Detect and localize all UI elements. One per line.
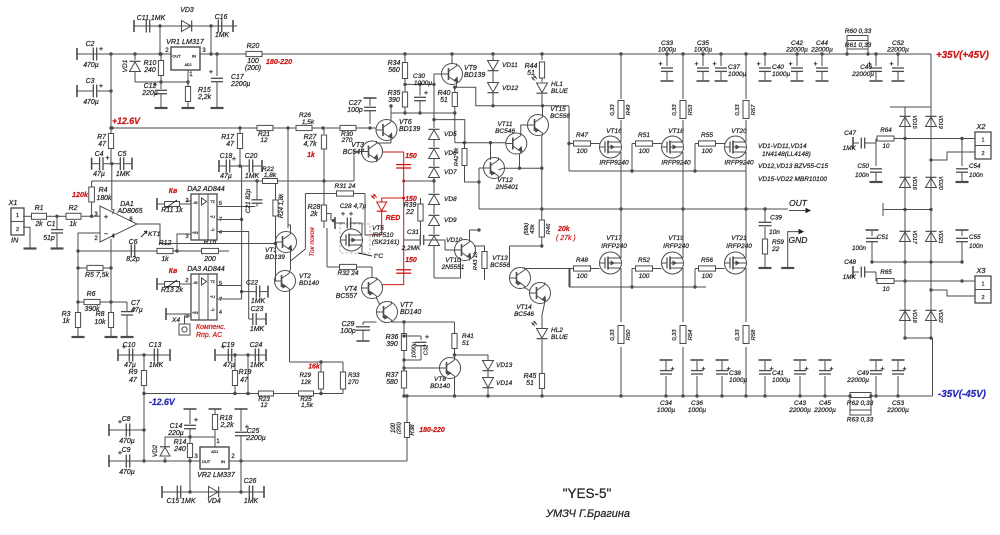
wire VD12 to gate drop [568, 106, 570, 144]
wire VT11 emitter [519, 154, 521, 168]
svg-text:+: + [232, 154, 236, 163]
svg-text:2N5401: 2N5401 [495, 184, 519, 191]
svg-text:+: + [425, 332, 429, 341]
svg-text:1,8k: 1,8k [264, 172, 277, 179]
svg-text:R55: R55 [701, 132, 713, 139]
label OUT [789, 198, 810, 213]
resistor R22 [262, 166, 277, 184]
svg-text:1N4148(LL4148): 1N4148(LL4148) [762, 151, 811, 158]
capacitor C19b [215, 342, 250, 369]
resistor R25 [299, 391, 314, 409]
wire VD10 bottom [434, 245, 461, 278]
op-amp DA2 AD844 [187, 185, 225, 240]
svg-text:+: + [694, 59, 698, 68]
svg-text:C15 1MK: C15 1MK [167, 498, 196, 505]
wire VT14 emitter [542, 304, 545, 316]
resistor R48 [570, 257, 600, 287]
svg-text:7: 7 [219, 297, 222, 303]
svg-text:X4: X4 [171, 317, 180, 324]
resistor R3 [62, 302, 81, 337]
svg-text:Rпр. AC: Rпр. AC [196, 332, 223, 339]
svg-text:BLUE: BLUE [551, 88, 569, 95]
resistor R57 0.33 [735, 101, 757, 119]
svg-text:R24 1,8k: R24 1,8k [279, 193, 285, 218]
wire VD2-R18 line [165, 435, 215, 438]
resistor R55 [693, 132, 724, 173]
svg-text:1k: 1k [307, 152, 316, 159]
svg-text:51: 51 [440, 97, 448, 104]
svg-text:+: + [712, 59, 716, 68]
capacitor C43 [788, 360, 811, 414]
diode VD1 [122, 52, 141, 82]
svg-text:VT2: VT2 [299, 273, 311, 280]
svg-text:0,33: 0,33 [610, 104, 616, 116]
transistor VT4 BC557 [336, 278, 383, 301]
svg-text:VD4: VD4 [207, 498, 221, 505]
svg-text:TZ: TZ [210, 280, 215, 284]
capacitor C44 [810, 40, 833, 81]
svg-text:240: 240 [143, 67, 156, 74]
wire VD tap [432, 118, 465, 143]
transistor VT8 BD140 [430, 358, 460, 391]
svg-text:KT1: KT1 [148, 231, 161, 238]
svg-text:100: 100 [702, 273, 713, 280]
svg-text:Кв: Кв [169, 268, 178, 275]
svg-text:−: − [104, 229, 108, 238]
svg-text:VD13: VD13 [496, 362, 513, 369]
wire VD13 top [455, 354, 489, 356]
svg-text:IRFP9240: IRFP9240 [724, 160, 754, 167]
op-amp DA1 AD8065 [94, 201, 142, 242]
svg-text:R35: R35 [388, 90, 401, 97]
mosfet VT18 IRFP9240 [661, 128, 691, 167]
wire DA1 pin4 [110, 239, 112, 268]
ground C7 [121, 336, 134, 338]
svg-text:100n: 100n [852, 245, 866, 252]
wire bottom cap line C15-VD4-C26 [162, 491, 264, 493]
transistor VT15 BC556 [528, 106, 571, 136]
svg-text:C32: C32 [424, 344, 430, 355]
svg-text:1: 1 [189, 71, 193, 78]
wire VT10 collector [470, 228, 481, 239]
svg-text:C37: C37 [728, 64, 740, 71]
transistor VT11 BC546 [495, 121, 527, 154]
capacitor C27 [347, 98, 376, 130]
resistor R47 [567, 132, 599, 155]
wire +35V rail drop to rectifier [930, 54, 932, 107]
svg-text:150: 150 [405, 257, 417, 264]
svg-text:100: 100 [577, 148, 588, 155]
capacitor C1 [43, 216, 63, 248]
svg-text:C48: C48 [844, 259, 856, 266]
svg-text:X2: X2 [975, 122, 985, 131]
svg-text:IN: IN [192, 54, 196, 59]
svg-text:VD15: VD15 [911, 115, 917, 128]
regulator VR2 LM337 [197, 447, 236, 479]
svg-text:22000µ: 22000µ [785, 47, 808, 54]
svg-text:C3: C3 [86, 78, 95, 85]
svg-text:1,5k: 1,5k [301, 402, 314, 409]
svg-text:2: 2 [165, 47, 169, 54]
svg-text:R34: R34 [388, 60, 401, 67]
svg-text:470µ: 470µ [83, 62, 99, 69]
svg-text:R12: R12 [159, 240, 172, 247]
label 180-220 top [266, 58, 292, 66]
trimmer R13 [157, 278, 191, 294]
diode VD3b bottom none [0, 0, 1, 1]
svg-text:Компенс.: Компенс. [196, 324, 226, 331]
ground C17 [211, 107, 224, 109]
transistor VT1 BD139 [265, 232, 297, 262]
wire VT12 emitter [499, 167, 544, 171]
resistor R23 [258, 391, 273, 409]
svg-text:1: 1 [16, 213, 19, 219]
connector X2 [975, 122, 991, 159]
wire VT8 collector [453, 379, 456, 398]
svg-text:BD140: BD140 [299, 280, 319, 287]
wire bottom gate bus [569, 269, 706, 288]
svg-text:1MK: 1MK [251, 298, 266, 305]
svg-text:47: 47 [98, 141, 107, 148]
resistor R44 [525, 52, 545, 82]
resistor R17 [221, 126, 242, 167]
wire y113 line [391, 111, 456, 114]
wire VT1/VT2 bases [274, 242, 277, 281]
svg-text:47: 47 [226, 141, 235, 148]
svg-text:C36: C36 [691, 400, 703, 407]
resistor R35 [388, 84, 408, 114]
wire feedback down [0, 0, 1, 1]
svg-text:+IN: +IN [192, 311, 198, 315]
svg-text:VT15: VT15 [550, 106, 566, 113]
capacitor C17 [209, 52, 251, 108]
svg-text:22000µ: 22000µ [846, 377, 869, 384]
capacitor C29 [340, 321, 376, 341]
svg-text:+: + [804, 364, 808, 373]
svg-text:C4: C4 [95, 151, 104, 158]
svg-text:R3: R3 [62, 311, 71, 318]
subtitle [545, 508, 630, 520]
svg-text:0,33: 0,33 [735, 329, 741, 341]
label Tok pokoya [309, 227, 316, 257]
svg-text:C25: C25 [247, 428, 260, 435]
svg-text:R44: R44 [525, 63, 538, 70]
resistor R37 [386, 371, 407, 396]
mosfet VT19 IRFP240 [662, 235, 690, 276]
diode VD6 [429, 139, 458, 159]
capacitor C8 [109, 416, 146, 445]
svg-text:-U: -U [210, 308, 214, 312]
svg-text:C11 1MK: C11 1MK [137, 15, 166, 22]
svg-text:C14: C14 [170, 423, 183, 430]
mosfet VT17 IRFP240 [600, 235, 628, 276]
svg-text:( 27k ): ( 27k ) [556, 235, 576, 242]
svg-text:+: + [99, 44, 103, 53]
svg-text:R63 0,33: R63 0,33 [847, 417, 874, 424]
resistor R29 [300, 362, 324, 395]
wire DA2 pin2 [186, 200, 191, 202]
resistor R33 [340, 362, 360, 394]
svg-text:47µ: 47µ [124, 362, 136, 369]
pin 2 VR1 [165, 47, 169, 54]
svg-text:R15: R15 [198, 87, 211, 94]
svg-text:1k: 1k [161, 256, 169, 263]
svg-text:1000µ: 1000µ [657, 407, 675, 414]
transistor VT2 BD140 [275, 271, 320, 292]
svg-text:VT11: VT11 [497, 121, 512, 128]
svg-text:+: + [105, 153, 109, 162]
svg-text:t°C: t°C [374, 252, 383, 260]
svg-text:VT14: VT14 [516, 304, 532, 311]
wire LM337 output line [232, 438, 407, 461]
svg-text:1000µ: 1000µ [772, 71, 790, 78]
wire VT6 collector up [390, 113, 392, 120]
diode VD21 [926, 230, 944, 243]
svg-text:47µ: 47µ [131, 307, 143, 314]
wire VT17 column [619, 209, 622, 398]
mosfet VT20 IRFP9240 [724, 128, 754, 167]
node C2 [109, 52, 112, 55]
svg-text:8,2p: 8,2p [126, 256, 140, 263]
terminal C11 left [133, 20, 135, 32]
svg-text:C51: C51 [877, 234, 889, 241]
capacitor C15 [162, 486, 196, 506]
svg-text:C1: C1 [47, 221, 56, 228]
svg-text:VD1-VD11,VD14: VD1-VD11,VD14 [758, 143, 807, 150]
svg-text:220µ: 220µ [167, 430, 184, 437]
svg-text:22000µ: 22000µ [886, 47, 909, 54]
svg-text:IRF510: IRF510 [372, 232, 394, 239]
svg-text:VD12: VD12 [502, 85, 519, 92]
svg-text:VT10: VT10 [445, 257, 461, 264]
wire left diode column [904, 107, 906, 338]
wire DA2 +IN [177, 234, 191, 251]
svg-text:R37: R37 [386, 372, 400, 379]
ground X1 [24, 247, 37, 249]
svg-text:VD1: VD1 [122, 59, 129, 72]
svg-text:VD5: VD5 [444, 131, 457, 138]
svg-text:VT7: VT7 [400, 302, 414, 309]
node +12.6V start [110, 126, 113, 129]
resistor R30 [340, 125, 356, 144]
label Kv DA3 [169, 268, 178, 275]
svg-text:C13: C13 [149, 342, 162, 349]
svg-text:2,2MK: 2,2MK [401, 245, 421, 252]
wire rail2 mid drop [287, 128, 289, 228]
svg-text:C23: C23 [251, 306, 264, 313]
svg-text:C29: C29 [342, 321, 355, 328]
capacitor C21 [245, 179, 263, 213]
svg-text:R38: R38 [410, 424, 416, 436]
diode VD13 [483, 355, 513, 371]
svg-text:TZ: TZ [210, 200, 215, 204]
svg-text:VR1 LM317: VR1 LM317 [166, 38, 205, 46]
wire VT19 column [681, 209, 684, 398]
svg-text:3: 3 [202, 47, 206, 54]
pin 2 VR2 [231, 454, 235, 460]
svg-text:+: + [99, 81, 103, 90]
label 180-220 bottom [419, 427, 445, 434]
capacitor C34 [657, 360, 675, 414]
capacitor C35 [694, 40, 712, 81]
svg-text:BD139: BD139 [464, 72, 485, 79]
label RED [386, 215, 401, 222]
svg-text:+: + [829, 364, 833, 373]
terminal C16 right [232, 20, 234, 32]
svg-text:C47: C47 [844, 130, 856, 137]
diode VD12 [488, 71, 519, 106]
wire C51-C55 line [872, 260, 962, 263]
svg-text:1000µ: 1000µ [414, 80, 432, 87]
svg-text:VD14: VD14 [496, 380, 513, 387]
label 150 b [405, 196, 417, 203]
svg-text:VT3: VT3 [351, 142, 364, 149]
capacitor C47 [843, 130, 876, 152]
resistor R65 [877, 269, 975, 293]
svg-text:20k: 20k [557, 226, 571, 233]
svg-text:IN: IN [221, 459, 225, 464]
capacitor C12 [141, 80, 167, 108]
wire DA3 TZ [217, 285, 242, 287]
resistor R12 [157, 240, 194, 263]
svg-text:BC556: BC556 [490, 262, 510, 269]
svg-text:47µ: 47µ [220, 173, 232, 180]
svg-text:240: 240 [173, 446, 186, 453]
capacitor C2 [77, 41, 111, 69]
svg-text:(200): (200) [245, 65, 261, 72]
svg-text:R58: R58 [751, 329, 757, 340]
transistor VT6 BD139 [376, 119, 420, 141]
node R1/C1 [55, 215, 58, 218]
resistor R26 [296, 112, 325, 131]
svg-text:BC546: BC546 [495, 128, 515, 135]
capacitor C33 [658, 40, 676, 81]
wire rectifier top link [890, 106, 931, 108]
diode VD22 [926, 309, 944, 322]
trimmer R11 [157, 198, 191, 214]
capacitor C46 [851, 52, 882, 81]
svg-text:1000µ: 1000µ [658, 47, 676, 54]
ground R15 [182, 107, 195, 109]
svg-text:C21 82p: C21 82p [245, 188, 252, 213]
svg-text:180-220: 180-220 [266, 58, 292, 66]
svg-text:+: + [889, 59, 893, 68]
transistor VT12 2N5401 [484, 158, 519, 192]
svg-text:+: + [104, 212, 108, 221]
svg-text:IRFP240: IRFP240 [663, 243, 689, 250]
svg-text:560: 560 [388, 67, 400, 74]
svg-text:C40: C40 [772, 64, 784, 71]
capacitor C18 [219, 153, 240, 180]
svg-text:DA1: DA1 [120, 201, 134, 208]
svg-text:R19: R19 [239, 369, 252, 376]
svg-text:100: 100 [639, 148, 650, 155]
wire C19-C24 line [215, 354, 266, 356]
svg-text:+IN: +IN [192, 231, 198, 235]
label Kv DA2 [169, 188, 178, 195]
capacitor C55 [956, 230, 984, 264]
svg-text:(200): (200) [397, 422, 403, 434]
svg-text:R45: R45 [524, 373, 537, 380]
capacitor C6 [78, 239, 157, 263]
svg-text:-U: -U [210, 228, 214, 232]
svg-text:R64: R64 [880, 127, 892, 134]
svg-text:R9: R9 [129, 369, 138, 376]
svg-text:R36: R36 [386, 334, 399, 341]
label 1k red [307, 152, 316, 159]
svg-text:IN: IN [11, 236, 19, 245]
svg-text:ADJ: ADJ [185, 63, 192, 67]
svg-text:IRFP240: IRFP240 [726, 243, 752, 250]
wire X1 pin2 to gnd [23, 227, 30, 248]
svg-text:Кв: Кв [169, 188, 178, 195]
wire VT13 collector [0, 0, 1, 1]
svg-text:100p: 100p [347, 107, 363, 114]
svg-text:X1: X1 [7, 198, 17, 207]
svg-text:100n: 100n [969, 172, 983, 179]
resistor R14 [173, 437, 192, 463]
svg-text:VT21: VT21 [731, 235, 747, 242]
wire VT6 collector [389, 104, 392, 119]
svg-text:0,33: 0,33 [672, 104, 678, 116]
svg-text:3: 3 [185, 314, 188, 320]
svg-text:C6: C6 [129, 239, 138, 246]
svg-text:OUT: OUT [789, 198, 808, 208]
svg-text:1MK: 1MK [245, 173, 260, 180]
wire DA2 supply drop [241, 166, 243, 300]
svg-text:R59: R59 [772, 239, 784, 246]
svg-text:R60 0,33: R60 0,33 [845, 28, 872, 35]
svg-text:VD7: VD7 [444, 169, 457, 176]
svg-text:12k: 12k [301, 379, 312, 386]
diode VD18 [900, 309, 918, 322]
svg-text:R31 24: R31 24 [335, 183, 356, 190]
wire C2-C3 drop [109, 54, 112, 130]
diode chain VD5 [429, 84, 458, 139]
svg-text:C17: C17 [231, 74, 245, 81]
led HL2 [532, 315, 569, 398]
wire C9 feed line [109, 460, 232, 462]
svg-text:C55: C55 [969, 234, 981, 241]
svg-text:47µ: 47µ [223, 362, 235, 369]
wire y106 line [493, 105, 569, 107]
svg-text:VD15-VD22 MBR10100: VD15-VD22 MBR10100 [758, 176, 827, 183]
svg-text:VT20: VT20 [731, 128, 747, 135]
svg-text:R50: R50 [626, 329, 632, 340]
svg-text:100n: 100n [855, 172, 869, 179]
node bus dots [246, 392, 249, 395]
svg-text:1000µ: 1000µ [728, 71, 746, 78]
wire VT6 emitter to VT3 collector [377, 141, 392, 144]
resistor R53 0.33 [672, 101, 694, 119]
svg-text:100n: 100n [969, 243, 983, 250]
wire VT3 base [354, 152, 362, 182]
wire DA2 +U [217, 218, 243, 221]
resistor R2 [57, 205, 100, 228]
wire VT15 collector [541, 136, 543, 169]
svg-text:220µ: 220µ [141, 90, 158, 97]
svg-text:VT5: VT5 [372, 225, 384, 232]
resistor R56 [693, 257, 724, 289]
capacitor C24 [250, 342, 266, 369]
label 120k [72, 191, 89, 199]
svg-text:470µ: 470µ [83, 99, 99, 106]
svg-text:R40: R40 [438, 90, 451, 97]
svg-text:C5: C5 [118, 151, 127, 158]
svg-text:1000µ: 1000µ [772, 377, 790, 384]
svg-text:1MK: 1MK [244, 498, 259, 505]
svg-text:470µ: 470µ [119, 469, 135, 476]
